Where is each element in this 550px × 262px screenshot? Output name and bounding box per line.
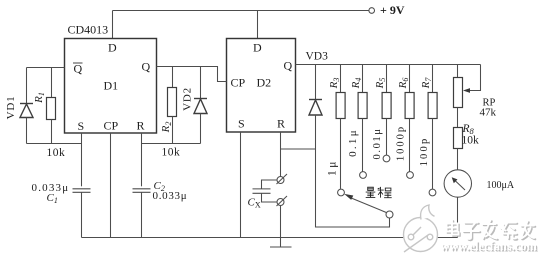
node contact 0.1u	[360, 172, 367, 179]
svg-text:S: S	[238, 117, 245, 131]
svg-text:10k: 10k	[162, 147, 181, 159]
wire R8 to meter	[457, 149, 459, 170]
wire VD1 bottom	[26, 118, 28, 144]
wire right bottom join to R	[142, 143, 201, 145]
wire left bottom join to S	[27, 143, 82, 145]
svg-text:S: S	[78, 119, 85, 133]
wire R1 top	[51, 68, 53, 98]
label R2	[160, 122, 173, 134]
node contact 100p	[429, 189, 436, 196]
svg-text:D: D	[253, 41, 262, 55]
watermark text www.elecfans.com	[441, 239, 539, 254]
wire D2 S pin down	[240, 132, 242, 238]
wire R2 top	[172, 67, 174, 88]
wire D2 Q output rail	[296, 64, 481, 66]
svg-text:47k: 47k	[480, 107, 497, 119]
svg-text:1000p: 1000p	[396, 125, 407, 161]
watermark text dianzifashaoyou	[447, 220, 536, 240]
capacitor Cx	[253, 189, 271, 193]
svg-text:VD3: VD3	[306, 51, 329, 63]
label R6	[397, 78, 410, 90]
svg-text:CP: CP	[231, 76, 246, 90]
wire VD3 bottom to switch pivot	[316, 115, 390, 227]
node contact 1000p	[407, 172, 414, 179]
svg-text:VD1: VD1	[5, 96, 17, 120]
label 1000p	[396, 125, 407, 161]
node contact 1u	[338, 189, 345, 196]
svg-text:1μ: 1μ	[327, 159, 339, 176]
svg-text:10k: 10k	[47, 147, 66, 159]
svg-text:10k: 10k	[462, 135, 480, 147]
svg-text:0.033μ: 0.033μ	[153, 190, 188, 202]
wire RP wiper drop	[465, 65, 481, 91]
label R1	[33, 92, 46, 104]
wire meter to bus	[457, 197, 459, 237]
wire Cx top elbow	[262, 180, 278, 189]
wire VD1 top	[26, 68, 28, 104]
wire R1 bottom	[51, 120, 53, 144]
resistor R7 branch	[428, 65, 437, 189]
wire RP to R8	[457, 108, 459, 128]
RP wiper arrow	[463, 88, 470, 93]
node contact 0.01u	[383, 155, 390, 162]
node +9V terminal	[369, 8, 375, 14]
label R4	[350, 78, 363, 90]
wire rail to D1 D pin	[112, 11, 114, 39]
resistor R8	[454, 128, 463, 149]
wire D1 CP pin down	[110, 133, 112, 238]
diode VD2	[194, 99, 207, 114]
wire lower terminal to bus	[280, 206, 282, 238]
wire VD2 bottom	[200, 114, 202, 144]
svg-text:R: R	[277, 117, 285, 131]
resistor R3 branch	[336, 65, 345, 189]
label VD1	[5, 96, 17, 120]
svg-text:100p: 100p	[419, 137, 430, 167]
wire D1 Q to D2 CP	[157, 67, 227, 82]
svg-text:CD4013: CD4013	[68, 23, 109, 37]
label 0.01u	[372, 127, 383, 159]
flip-flop D2	[227, 39, 296, 133]
wire R node to VD3 node	[281, 148, 316, 150]
wire RP top	[457, 65, 459, 78]
label 0.1u	[347, 128, 359, 157]
resistor R2	[168, 88, 177, 117]
label R7	[420, 77, 433, 90]
node Cx lower terminal	[277, 196, 288, 206]
wire Cx bottom elbow	[262, 194, 278, 203]
wire R2 bottom	[172, 117, 174, 144]
diode VD3	[309, 100, 322, 116]
wire D1 Qbar to left network	[27, 67, 65, 69]
wire rail to D2 D pin	[257, 11, 259, 39]
svg-text:www.elecfans.com: www.elecfans.com	[441, 239, 537, 253]
svg-text:100μA: 100μA	[487, 180, 515, 191]
potentiometer RP	[454, 78, 463, 108]
svg-text:0.01μ: 0.01μ	[372, 127, 383, 159]
label 1u	[327, 159, 339, 176]
switch arm	[344, 194, 386, 213]
resistor R1	[47, 98, 56, 120]
node switch pivot	[386, 211, 393, 218]
svg-text:0.1μ: 0.1μ	[347, 128, 359, 157]
wire D1 S pin down	[81, 133, 83, 186]
svg-text:D1: D1	[104, 79, 119, 93]
capacitor C1	[73, 189, 91, 193]
ground	[270, 238, 292, 248]
wire D2 R pin down	[280, 132, 282, 177]
resistor R6 branch	[405, 65, 414, 172]
svg-text:D2: D2	[257, 76, 272, 90]
label VD2	[182, 87, 194, 111]
node Cx upper terminal	[277, 174, 288, 184]
svg-text:CP: CP	[104, 119, 119, 133]
meter M 100uA	[444, 170, 471, 197]
label R3	[328, 78, 341, 90]
watermark logo circle	[404, 205, 438, 252]
flip-flop D1	[65, 39, 157, 134]
wire ground bus	[82, 237, 458, 239]
wire D1 R pin down	[141, 133, 143, 186]
capacitor C2	[133, 189, 151, 193]
svg-text:R: R	[137, 119, 145, 133]
svg-text:Q: Q	[142, 60, 151, 74]
wire VD2 top	[200, 67, 202, 99]
svg-text:Q: Q	[74, 62, 83, 76]
wire VD3 top	[315, 65, 317, 100]
svg-text:+ 9V: + 9V	[380, 3, 405, 17]
svg-text:VD2: VD2	[182, 87, 194, 111]
diode VD1	[20, 104, 33, 118]
label 100p	[419, 137, 430, 167]
label R5	[374, 78, 387, 90]
label range (liang cheng)	[366, 187, 392, 198]
resistor R5 branch	[382, 65, 391, 156]
resistor R4 branch	[358, 65, 367, 172]
svg-text:Q: Q	[284, 59, 293, 73]
wire +9V top rail	[113, 10, 369, 12]
svg-text:D: D	[108, 41, 117, 55]
